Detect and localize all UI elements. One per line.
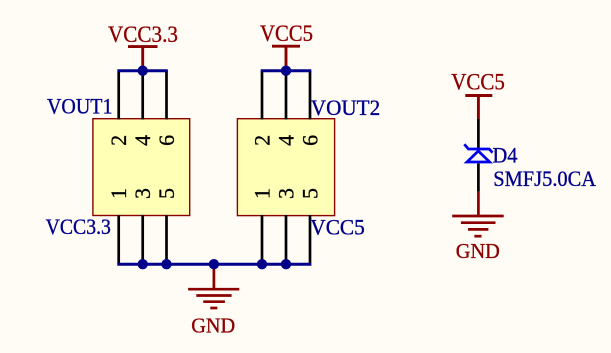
svg-text:VCC5: VCC5 bbox=[310, 215, 365, 240]
svg-text:3: 3 bbox=[273, 188, 298, 199]
svg-text:4: 4 bbox=[273, 135, 298, 146]
svg-text:4: 4 bbox=[130, 135, 155, 146]
svg-text:1: 1 bbox=[249, 188, 274, 199]
svg-text:3: 3 bbox=[130, 188, 155, 199]
svg-text:5: 5 bbox=[154, 188, 179, 199]
svg-text:SMFJ5.0CA: SMFJ5.0CA bbox=[493, 166, 596, 191]
svg-text:1: 1 bbox=[106, 188, 131, 199]
svg-text:VOUT2: VOUT2 bbox=[311, 95, 380, 120]
svg-text:2: 2 bbox=[106, 135, 131, 146]
svg-text:6: 6 bbox=[297, 135, 322, 146]
svg-text:5: 5 bbox=[297, 188, 322, 199]
svg-text:GND: GND bbox=[191, 313, 235, 337]
svg-text:D4: D4 bbox=[493, 143, 518, 168]
svg-text:VOUT1: VOUT1 bbox=[47, 93, 113, 118]
svg-text:VCC5: VCC5 bbox=[260, 21, 313, 46]
svg-text:2: 2 bbox=[249, 135, 274, 146]
svg-text:VCC3.3: VCC3.3 bbox=[108, 22, 178, 47]
svg-text:VCC5: VCC5 bbox=[451, 70, 505, 95]
svg-text:GND: GND bbox=[456, 239, 500, 263]
svg-text:VCC3.3: VCC3.3 bbox=[46, 214, 111, 239]
svg-text:6: 6 bbox=[154, 135, 179, 146]
